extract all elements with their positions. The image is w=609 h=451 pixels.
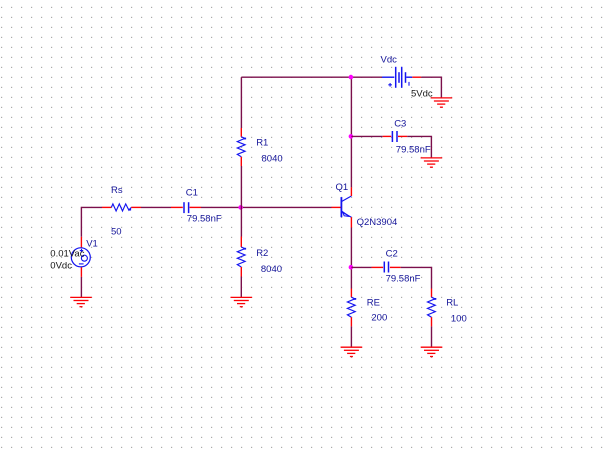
svg-text:V1: V1 [86, 238, 98, 249]
ground RE [341, 347, 363, 356]
wire top rail [241, 76, 382, 78]
pin Vdc right [412, 76, 421, 78]
wire C1 to Q1 base [201, 206, 332, 208]
pin C1 left [171, 206, 183, 208]
transistor Q1 [341, 196, 351, 217]
ground Vdc [431, 98, 453, 107]
svg-text:79.58nF: 79.58nF [187, 214, 222, 225]
svg-text:C1: C1 [186, 188, 198, 199]
pin RE top [350, 289, 352, 298]
pin Q1 collector [350, 187, 352, 196]
capacitor C3 [392, 131, 397, 142]
wire emitter column [350, 228, 352, 289]
svg-text:0Vdc: 0Vdc [50, 261, 72, 272]
capacitor C2 [384, 262, 388, 273]
battery Vdc [382, 67, 412, 88]
svg-text:8040: 8040 [261, 264, 282, 275]
source V1 [71, 248, 90, 267]
capacitor C1 [184, 202, 189, 213]
pin C2 left [372, 266, 384, 268]
pin Q1 base [332, 206, 341, 208]
pin Rs right [131, 206, 141, 208]
svg-text:5Vdc: 5Vdc [411, 89, 433, 100]
wire RE to ground [350, 326, 352, 347]
ground V1 [70, 297, 92, 306]
pin Q1 emitter [350, 217, 352, 227]
wire top rail to R1 [240, 77, 242, 128]
wire C3 tap [351, 135, 382, 137]
svg-text:R2: R2 [256, 248, 268, 259]
svg-text:79.58nF: 79.58nF [396, 144, 431, 155]
wire V1 bottom to ground [80, 277, 82, 297]
pin R1 bottom [240, 157, 242, 166]
wire Rs to C1 [141, 206, 171, 208]
pin C3 right [398, 135, 407, 137]
svg-text:8040: 8040 [262, 153, 283, 164]
wire R2 to ground [240, 277, 242, 298]
ground C3 [421, 158, 443, 167]
svg-text:C3: C3 [394, 118, 406, 129]
junction node C3 tap [349, 134, 354, 139]
svg-text:100: 100 [451, 314, 467, 325]
wire C2 to RL [401, 267, 432, 288]
svg-text:R1: R1 [256, 138, 268, 149]
pin V1 top [80, 237, 82, 248]
wire collector column [350, 77, 352, 187]
pin C2 right [390, 266, 401, 268]
ground R2 [231, 297, 253, 306]
pin C1 right [190, 206, 201, 208]
svg-text:Q1: Q1 [336, 182, 349, 193]
ground RL [421, 347, 443, 356]
wire Vdc to ground [421, 77, 441, 98]
junction node C1/R1/R2 [238, 205, 243, 210]
resistor R2 [237, 247, 246, 267]
resistor RL [428, 297, 437, 317]
resistor R1 [237, 137, 246, 157]
svg-text:Q2N3904: Q2N3904 [357, 217, 398, 228]
resistor Rs [111, 204, 131, 211]
pin R2 bottom [240, 267, 242, 277]
pin C3 left [383, 135, 392, 137]
pin R1 top [240, 128, 242, 137]
wire C2 tap [351, 266, 371, 268]
svg-text:200: 200 [371, 312, 387, 323]
wire R1 to junction [240, 166, 242, 237]
wire V1 top to Rs [81, 207, 102, 236]
svg-text:0.01Vac: 0.01Vac [50, 248, 84, 259]
pin Rs left [102, 206, 111, 208]
pin RL top [431, 289, 433, 298]
svg-text:RL: RL [446, 298, 458, 309]
pin RL bottom [431, 317, 433, 326]
pin V1 bottom [80, 267, 82, 277]
wire C3 to ground [407, 136, 431, 157]
pin R2 top [240, 237, 242, 248]
wire RL to ground [431, 326, 433, 347]
svg-text:Rs: Rs [111, 185, 123, 196]
junction node C2 tap [349, 265, 354, 270]
svg-text:79.58nF: 79.58nF [386, 274, 421, 285]
svg-text:RE: RE [367, 298, 380, 309]
svg-text:Vdc: Vdc [381, 55, 398, 66]
junction node top rail [349, 75, 354, 80]
pin RE bottom [350, 317, 352, 326]
svg-text:C2: C2 [386, 248, 398, 259]
resistor RE [347, 297, 356, 317]
svg-text:50: 50 [111, 227, 122, 238]
